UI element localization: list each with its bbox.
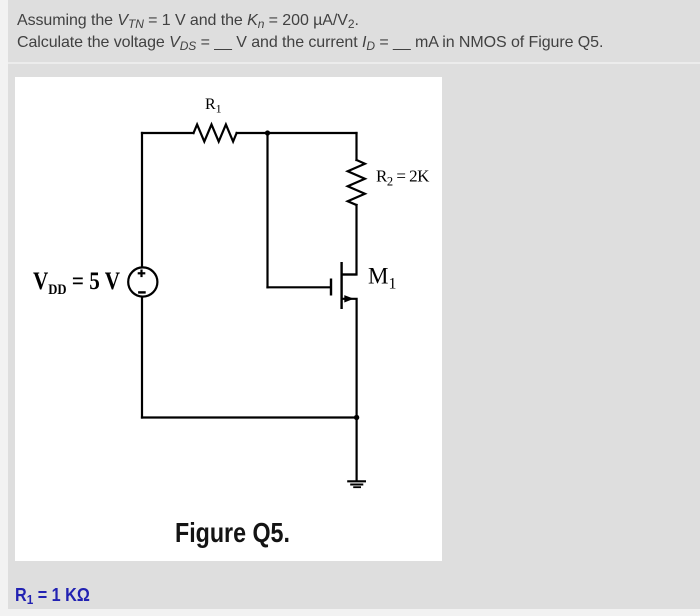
node B: junction dot of ground stem on bottom rail — [354, 415, 359, 420]
voltage source minus sign — [138, 291, 146, 293]
transistor M1 gate bar — [330, 279, 332, 296]
voltage source plus sign — [138, 270, 146, 278]
wire: drain branch lower (R2 down to drain corner) — [342, 205, 357, 275]
wire: top rail left segment (VDD node to R1) — [142, 132, 194, 134]
wire: bottom rail — [142, 416, 357, 418]
wire: ground stem — [356, 418, 358, 481]
svg-text:M1: M1 — [368, 263, 396, 292]
transistor M1 source arrow — [344, 295, 354, 302]
wire: left branch lower (source - terminal down to bottom rail) — [141, 297, 143, 417]
node A: junction dot of gate branch on top rail — [265, 130, 270, 135]
svg-text:VDD = 5 V: VDD = 5 V — [33, 268, 120, 298]
transistor M1 channel line — [340, 262, 342, 309]
wire: source lead of M1 to bottom rail — [342, 299, 357, 418]
svg-text:R1: R1 — [205, 96, 222, 116]
svg-text:R2 = 2K: R2 = 2K — [376, 166, 430, 188]
resistor R2 — [348, 160, 365, 205]
wire: top rail right segment (R1 to drain branch corner) — [237, 132, 357, 134]
ground symbol — [347, 481, 366, 487]
wire: left branch upper (top rail down to source + terminal) — [141, 133, 143, 267]
voltage source VDD circle — [128, 267, 157, 296]
transistor M1 drain lead — [342, 273, 357, 275]
wire: gate branch vertical drop from node A — [266, 133, 268, 287]
resistor R1 — [194, 125, 237, 142]
wire: drain branch upper (top rail down to R2) — [355, 133, 357, 160]
wire: gate branch horizontal to gate of M1 — [268, 286, 331, 288]
